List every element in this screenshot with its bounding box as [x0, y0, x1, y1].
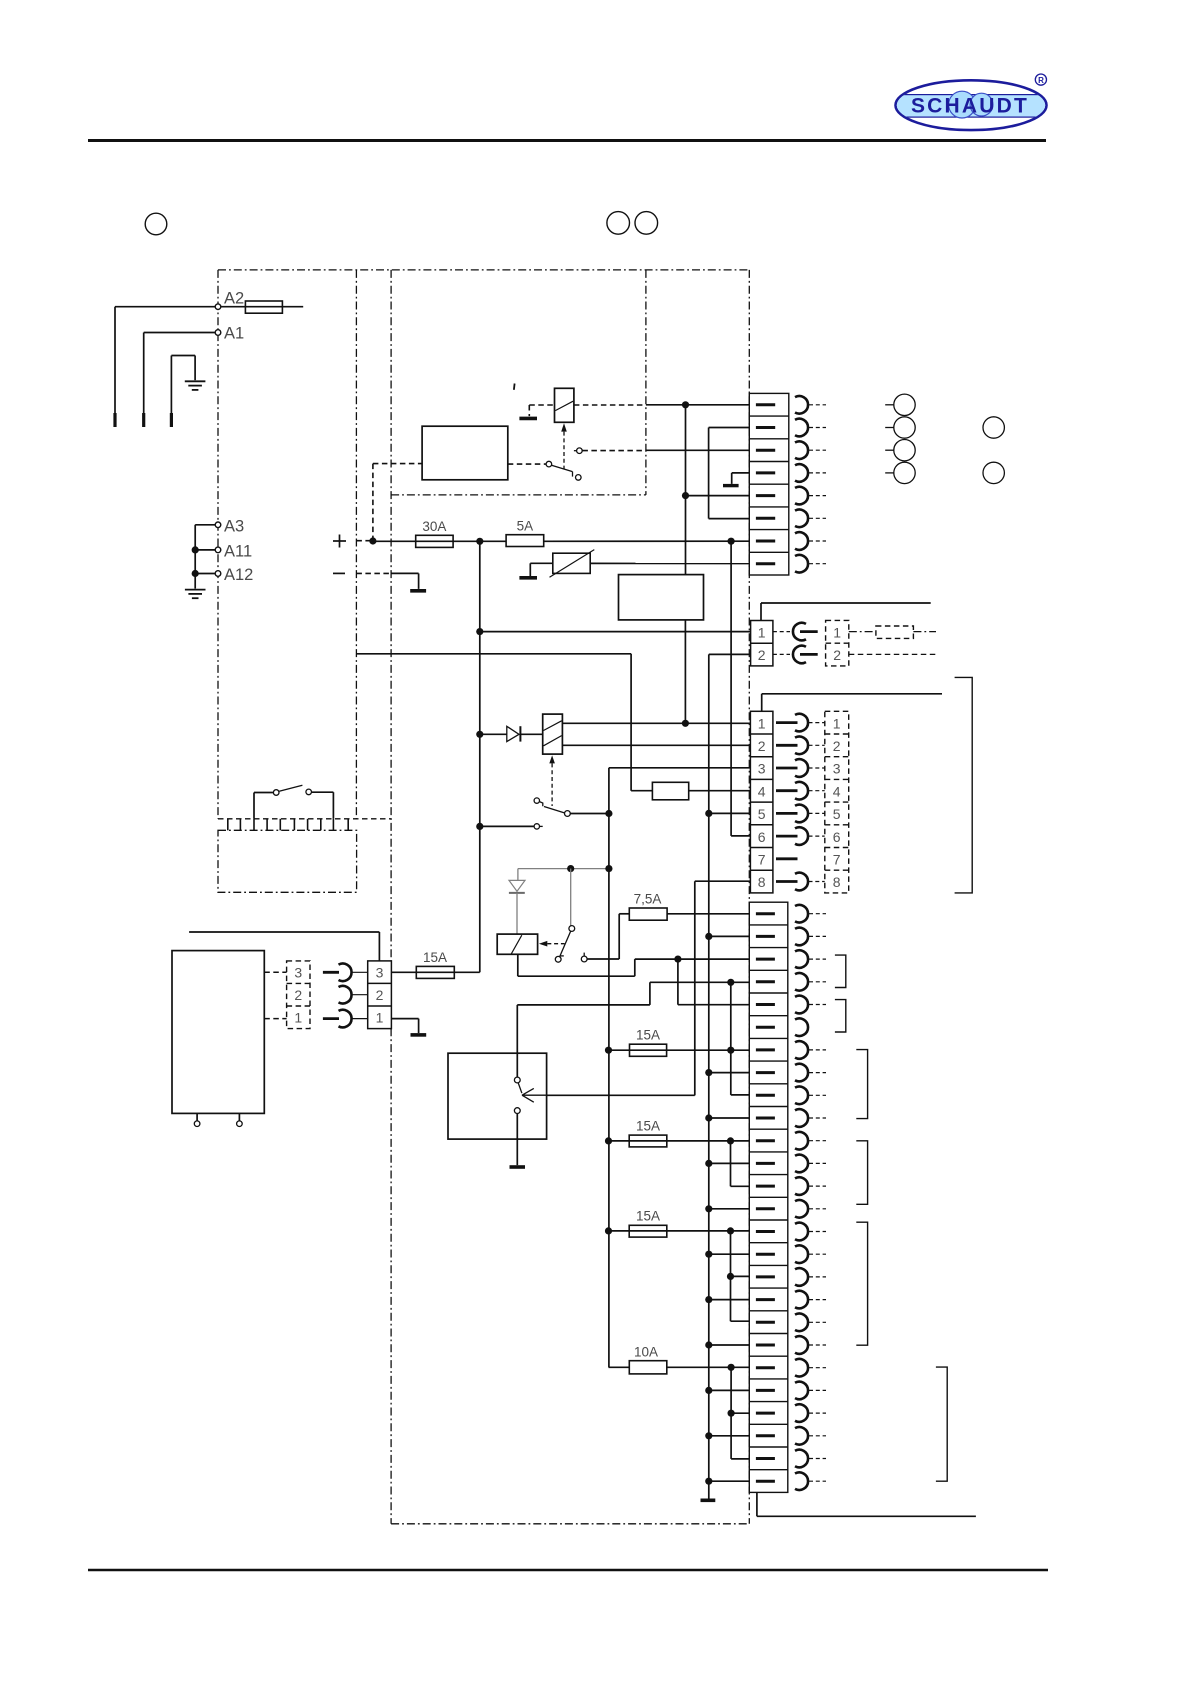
X4 crimp terminal row 2	[756, 426, 775, 429]
junction K2/U2	[682, 720, 689, 727]
wire K1 coil to chassis	[529, 404, 554, 406]
wire F2 to terminal row 7	[544, 540, 756, 542]
bracket group E	[856, 1222, 867, 1345]
S1 lower contact	[514, 1108, 520, 1114]
junction A11 wire	[192, 546, 199, 553]
X5 crimp terminal row 24	[756, 1434, 775, 1437]
wire D+ bus to X2 pin3	[609, 767, 751, 769]
device terminal pin 1	[196, 1113, 198, 1120]
svg-text:7,5A: 7,5A	[634, 891, 662, 906]
svg-text:5A: 5A	[517, 518, 534, 533]
X5 socket row 3	[795, 950, 808, 968]
fuse F6 15A	[605, 1227, 612, 1234]
X5 socket row 8	[795, 1064, 808, 1082]
junction staircase	[674, 956, 681, 963]
X5 crimp terminal row 4	[756, 980, 775, 983]
K3 second contact	[581, 956, 587, 962]
X5 crimp terminal row 5	[756, 1003, 775, 1006]
junction ground bus tap y=936.4	[705, 933, 712, 940]
inner mains box right edge	[645, 270, 647, 495]
bracket group D	[856, 1141, 867, 1205]
X5 crimp terminal row 2	[756, 935, 775, 938]
link terminal rows 2 and 6	[708, 428, 710, 519]
wire end tick 2	[142, 413, 145, 427]
position marker circle middle 1	[607, 212, 630, 235]
junction ground bus tap y=1390.4	[705, 1387, 712, 1394]
chassis ground at R1	[519, 576, 537, 580]
fuse F8 15A	[391, 971, 479, 973]
svg-text:1: 1	[833, 715, 841, 731]
wire U2 bottom to K2 line	[684, 620, 686, 723]
bracket group F	[936, 1367, 947, 1481]
connector X1 board side	[751, 621, 773, 666]
mark '	[513, 384, 516, 390]
wire K2 to connector X2 pin1	[562, 722, 750, 724]
terminal strip X4	[749, 393, 789, 575]
connector X3 board side	[368, 961, 392, 1029]
wire battery sense to R2	[356, 653, 631, 655]
wire R1 to terminal row 8	[590, 562, 756, 564]
K2 lower contact	[480, 825, 534, 827]
svg-text:5: 5	[833, 806, 841, 822]
lamp L1	[885, 404, 894, 406]
svg-text:4: 4	[758, 783, 766, 799]
X5 crimp terminal row 13	[756, 1185, 775, 1188]
bracket group B2	[835, 1000, 846, 1032]
svg-text:15A: 15A	[636, 1119, 660, 1134]
wire battery plus dashed	[356, 540, 373, 542]
junction lower contact feed	[476, 823, 483, 830]
K2 actuation arrow	[549, 755, 555, 763]
battery terminal comb	[227, 819, 229, 831]
X5 crimp terminal row 26	[756, 1480, 775, 1483]
X4 crimp terminal row 4	[756, 471, 775, 474]
junction ground bus tap y=1345	[705, 1341, 712, 1348]
X5 crimp terminal row 10	[756, 1117, 775, 1120]
D+ bus vertical	[608, 768, 610, 1368]
K1 actuation arrow	[561, 423, 567, 431]
wire F2 branch to X2 pin6	[730, 541, 732, 836]
X2 lead row 2	[776, 744, 798, 747]
wire U2 top feed	[685, 405, 687, 575]
K2 changeover switch	[534, 798, 539, 803]
junction ground bus pin5	[705, 810, 712, 817]
fuse F4 15A	[605, 1047, 612, 1054]
bracket group C	[856, 1050, 867, 1119]
X5 socket row 14	[795, 1200, 808, 1218]
X3 crimp leads and sockets	[323, 971, 339, 974]
diode V1	[480, 733, 507, 735]
chassis ground at bus bottom	[701, 1499, 716, 1503]
svg-text:R: R	[1038, 76, 1044, 85]
main box right edge	[748, 270, 750, 1524]
S1 switch symbol	[514, 1077, 520, 1083]
svg-text:2: 2	[833, 738, 841, 754]
svg-text:3: 3	[294, 965, 302, 981]
node plus junction	[369, 537, 376, 544]
X5 socket row 2	[795, 928, 808, 946]
battery box	[218, 830, 357, 892]
position marker circle middle 2	[635, 212, 658, 235]
svg-text:1: 1	[376, 1010, 384, 1026]
K3 actuation arrow	[539, 941, 547, 947]
X5 socket row 23	[795, 1404, 808, 1422]
inner mains box bottom edge	[391, 494, 646, 496]
external fuse dashed	[849, 631, 876, 633]
X2 lead row 4	[776, 789, 798, 792]
X2 lead row 3	[776, 767, 798, 770]
X5 crimp terminal row 20	[756, 1344, 775, 1347]
ground wire third lead	[170, 356, 172, 415]
outer left box right edge	[355, 270, 357, 819]
junction X1 pin1	[476, 628, 483, 635]
svg-text:6: 6	[833, 829, 841, 845]
junction F6 branch 2	[727, 1273, 734, 1280]
junction ground bus tap y=1163.4	[705, 1160, 712, 1167]
junction after F1	[476, 538, 483, 545]
wire ground bus to X1 pin2	[709, 653, 751, 655]
X5 socket row 18	[795, 1291, 808, 1309]
svg-text:A1: A1	[224, 325, 244, 343]
junction ground bus tap y=1481.2	[705, 1478, 712, 1485]
fuse F5 15A	[605, 1137, 612, 1144]
terminal strip X5	[749, 902, 788, 1492]
svg-text:1: 1	[758, 715, 766, 731]
wire plus node to 30A fuse	[373, 540, 416, 542]
svg-text:2: 2	[758, 647, 766, 663]
control box U2	[619, 575, 704, 620]
terminal A1	[215, 330, 221, 336]
terminal A3	[215, 522, 221, 528]
plus sign	[333, 540, 346, 542]
heater switch box S1	[448, 1053, 547, 1139]
X1 sense line upward	[760, 603, 762, 621]
X5 crimp terminal row 11	[756, 1139, 775, 1142]
chassis ground at S1	[510, 1165, 526, 1169]
S1 output to X2 pin8 riser	[547, 1094, 695, 1096]
svg-text:2: 2	[833, 647, 841, 663]
svg-text:8: 8	[758, 874, 766, 890]
relay K2 coil	[543, 714, 563, 754]
connector X3 plug side (dashed)	[287, 961, 310, 1029]
svg-text:6: 6	[758, 829, 766, 845]
fusible resistor R1	[530, 562, 553, 564]
junction F5 branch	[727, 1137, 734, 1144]
K1 NC contact to output	[574, 450, 577, 452]
chassis ground at K1	[519, 417, 537, 421]
charger box U1	[422, 426, 508, 480]
svg-text:1: 1	[294, 1010, 302, 1026]
X5 crimp terminal row 12	[756, 1162, 775, 1165]
junction F7 branch	[728, 1364, 735, 1371]
svg-text:A12: A12	[224, 566, 253, 584]
top rule	[88, 139, 1046, 142]
X5 socket row 26	[795, 1472, 808, 1490]
main box left edge	[390, 270, 392, 1524]
X5 crimp terminal row 18	[756, 1298, 775, 1301]
ground bus vertical	[708, 654, 710, 1498]
resistor R2	[652, 782, 688, 800]
bottom rule	[88, 1569, 1048, 1572]
outer left box left edge	[217, 270, 219, 819]
wire device to X3 pin1	[264, 1018, 286, 1020]
wire K2 switch to D+ bus	[570, 813, 609, 815]
terminal A2	[215, 304, 221, 310]
X5 crimp terminal row 16	[756, 1253, 775, 1256]
junction ground bus tap y=1254.2	[705, 1251, 712, 1258]
svg-text:7: 7	[758, 852, 766, 868]
X4 socket row 2	[795, 419, 808, 437]
position marker circle left	[145, 213, 167, 235]
wire F3 to terminal	[667, 913, 756, 915]
fuse F3 7.5A	[629, 908, 667, 920]
X1 lead row 2	[773, 653, 790, 655]
X5 crimp terminal row 6	[756, 1026, 775, 1029]
X5 crimp terminal row 17	[756, 1275, 775, 1278]
sense line gray net	[518, 868, 609, 870]
X5 socket row 21	[795, 1359, 808, 1377]
svg-text:2: 2	[376, 987, 384, 1003]
X5 socket row 12	[795, 1155, 808, 1173]
device feed line from top	[189, 931, 379, 933]
junction ground bus tap y=1435.8	[705, 1432, 712, 1439]
X5 crimp terminal row 25	[756, 1457, 775, 1460]
fuse at A2	[221, 306, 303, 308]
svg-text:3: 3	[376, 965, 384, 981]
terminal row 4 chassis ground	[732, 472, 756, 474]
relay K1 coil	[555, 388, 574, 422]
svg-text:4: 4	[833, 783, 841, 799]
connector X2 board side	[750, 711, 773, 893]
X5 socket row 16	[795, 1245, 808, 1263]
heater net vertical	[730, 982, 732, 1095]
X4 socket row 6	[795, 510, 808, 528]
wire bus to connector X1 pin1	[480, 631, 751, 633]
svg-text:1: 1	[758, 624, 766, 640]
X5 socket row 11	[795, 1132, 808, 1150]
svg-text:A2: A2	[224, 290, 244, 308]
X4 crimp terminal row 6	[756, 517, 775, 520]
earth symbol upper	[185, 380, 206, 382]
device terminal pin 2	[238, 1113, 240, 1120]
connector X1 plug side	[826, 620, 849, 666]
chassis ground at X3	[411, 1033, 427, 1037]
X5 crimp terminal row 14	[756, 1207, 775, 1210]
minus sign	[333, 572, 345, 574]
junction ground bus tap y=1299.6	[705, 1296, 712, 1303]
fuse F1 30A	[416, 540, 506, 542]
X5 socket row 24	[795, 1427, 808, 1445]
wire pump switch to X2 pin8	[695, 880, 751, 882]
junction gray/contact	[567, 865, 574, 872]
svg-text:15A: 15A	[636, 1209, 660, 1224]
wire from A2	[115, 306, 215, 308]
X5 socket row 10	[795, 1109, 808, 1127]
X4 crimp terminal row 7	[756, 540, 775, 543]
X5 socket row 17	[795, 1268, 808, 1286]
main box bottom edge	[391, 1523, 749, 1525]
junction ground bus tap y=1118	[705, 1114, 712, 1121]
chassis ground at minus	[410, 589, 426, 593]
K1 changeover switch	[508, 463, 546, 465]
X5 socket row 20	[795, 1336, 808, 1354]
X4 socket row 4	[795, 464, 808, 482]
X5 socket row 4	[795, 973, 808, 991]
junction A12 wire	[192, 570, 199, 577]
X5 crimp terminal row 9	[756, 1094, 775, 1097]
wire ground bus to X2 pin5	[709, 812, 751, 814]
wire gray to K3 contact	[570, 869, 572, 926]
enclosure top border	[218, 269, 749, 271]
X2 lead row 1	[776, 721, 798, 724]
svg-text:3: 3	[758, 761, 766, 777]
X4 socket row 8	[795, 555, 808, 573]
X5 socket row 7	[795, 1041, 808, 1059]
junction heater/F4	[727, 1047, 734, 1054]
svg-text:5: 5	[758, 806, 766, 822]
X5 strip bottom tail	[756, 1492, 758, 1516]
lamp L4	[885, 472, 894, 474]
X5 socket row 5	[795, 996, 808, 1014]
external device box (fridge)	[172, 951, 264, 1114]
wire battery minus	[356, 572, 391, 574]
X4 socket row 3	[795, 441, 808, 459]
junction U2 feed row5	[682, 492, 689, 499]
svg-text:2: 2	[294, 987, 302, 1003]
relay K3 coil	[497, 934, 537, 954]
bracket group B1	[835, 955, 846, 987]
fuse F2 5A	[506, 535, 544, 547]
svg-text:SCHAUDT: SCHAUDT	[911, 94, 1029, 117]
svg-text:15A: 15A	[636, 1028, 660, 1043]
X5 crimp terminal row 3	[756, 958, 775, 961]
X5 crimp terminal row 22	[756, 1389, 775, 1392]
junction ground bus tap y=1208.8	[705, 1205, 712, 1212]
X2 lead row 6	[776, 835, 798, 838]
X5 socket row 13	[795, 1177, 808, 1195]
junction F7 branch 2	[728, 1410, 735, 1417]
X4 crimp terminal row 8	[756, 562, 775, 565]
X4 crimp terminal row 5	[756, 494, 775, 497]
X2 lead row 8	[776, 880, 798, 883]
wire end tick 1	[113, 413, 116, 427]
junction gray/D+ bus	[605, 865, 612, 872]
wire K2 to connector X2 pin2	[562, 744, 750, 746]
X5 crimp terminal row 19	[756, 1321, 775, 1324]
terminal A11	[215, 547, 221, 553]
logo SCHAUDT	[890, 74, 1052, 130]
battery isolator switch	[254, 792, 273, 794]
lamp L3	[885, 449, 894, 451]
junction K1 line	[682, 401, 689, 408]
X5 socket row 22	[795, 1382, 808, 1400]
X2 lead row 5	[776, 812, 798, 815]
wire to terminal row 5	[686, 495, 757, 497]
lamp L5	[983, 417, 1004, 438]
X1 lead row 1	[773, 631, 790, 633]
connector X2 plug side	[825, 711, 849, 893]
junction F6 branch	[727, 1227, 734, 1234]
X4 socket row 7	[795, 532, 808, 550]
X5 crimp terminal row 23	[756, 1412, 775, 1415]
X5 socket row 19	[795, 1314, 808, 1332]
lamp L2	[885, 427, 894, 429]
X2 feed line top	[761, 694, 763, 712]
X5 socket row 25	[795, 1450, 808, 1468]
X5 crimp terminal row 8	[756, 1071, 775, 1074]
junction D+ bus	[605, 810, 612, 817]
X5 socket row 6	[795, 1018, 808, 1036]
X4 crimp terminal row 3	[756, 449, 775, 452]
X5 crimp terminal row 21	[756, 1366, 775, 1369]
X4 socket row 5	[795, 487, 808, 505]
svg-text:A3: A3	[224, 518, 244, 536]
diode V2	[509, 880, 525, 891]
outer left box bottom dashed wire line	[218, 818, 391, 820]
wire from A1	[144, 332, 216, 334]
K3 switch	[569, 926, 575, 932]
fuse F7 10A	[609, 1366, 630, 1368]
wire device to X3 pin3	[264, 971, 286, 973]
junction heater line	[727, 979, 734, 986]
X4 crimp terminal row 1	[756, 403, 775, 406]
svg-text:2: 2	[758, 738, 766, 754]
X5 crimp terminal row 15	[756, 1230, 775, 1233]
X2 lead row 7	[776, 857, 798, 860]
X5 crimp terminal row 1	[756, 912, 775, 915]
X5 socket row 15	[795, 1223, 808, 1241]
wire A3 group to earth	[195, 524, 215, 526]
wire contact to 7.5A fuse	[587, 958, 619, 960]
junction ground bus tap y=1072.6	[705, 1069, 712, 1076]
svg-text:30A: 30A	[422, 519, 446, 534]
wire end tick 3	[170, 413, 173, 427]
bracket X2 group	[955, 677, 973, 893]
X4 socket row 1	[795, 396, 808, 414]
wire K1 coil output	[574, 404, 646, 406]
bus from F1 down	[479, 541, 481, 972]
svg-text:8: 8	[833, 874, 841, 890]
svg-text:10A: 10A	[634, 1344, 658, 1359]
X3 pin1 to chassis	[391, 1018, 418, 1020]
wire R2 to connector X2 pin4	[689, 790, 751, 792]
junction F2 line	[728, 538, 735, 545]
lamp L6	[983, 462, 1004, 483]
earth symbol lower	[185, 589, 206, 591]
svg-text:3: 3	[833, 761, 841, 777]
terminal A12	[215, 571, 221, 577]
svg-text:1: 1	[833, 624, 841, 640]
X5 socket row 1	[795, 905, 808, 923]
X5 crimp terminal row 7	[756, 1048, 775, 1051]
X5 socket row 9	[795, 1087, 808, 1105]
junction V1 feed	[476, 731, 483, 738]
S1 feed from staircase	[516, 1005, 518, 1077]
external wire row 2	[849, 653, 936, 655]
svg-text:7: 7	[833, 852, 841, 868]
S1 to ground	[516, 1114, 518, 1166]
wire K3 output staircase	[517, 954, 519, 976]
wire charger output to plus node	[372, 464, 374, 541]
svg-text:15A: 15A	[423, 950, 447, 965]
svg-text:A11: A11	[224, 543, 252, 561]
